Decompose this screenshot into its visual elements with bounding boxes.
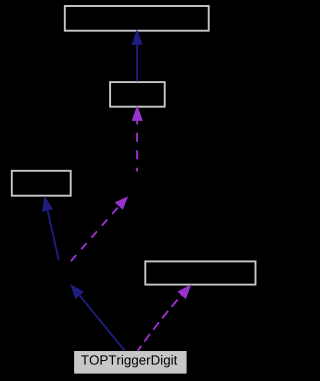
node box top (base class, label not visible): [65, 6, 209, 31]
node box TOPTriggerDigit (current node, grey fill): [74, 351, 187, 374]
inheritance arrow (solid blue) TOPTriggerDigit to hidden node A: [70, 284, 124, 351]
inheritance arrow (solid blue) second box to top box: [132, 29, 143, 82]
node box second (label not visible): [110, 82, 165, 107]
inheritance arrow (solid blue) hidden node A to left box: [42, 196, 59, 260]
node box right (label not visible): [145, 261, 255, 284]
usage arrow (dashed purple) hidden node B to second box: [132, 105, 143, 171]
usage arrow (dashed purple) hidden node A to hidden node B: [71, 196, 128, 261]
label TOPTriggerDigit: [81, 355, 177, 367]
node box left (label not visible): [12, 171, 71, 196]
usage arrow (dashed purple) TOPTriggerDigit to right box: [138, 284, 192, 350]
